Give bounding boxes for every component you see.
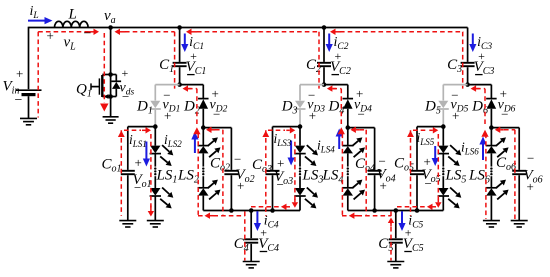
wire D6 lower <box>490 109 492 128</box>
node LS1 top dot <box>153 124 158 129</box>
label VC2 <box>330 59 351 77</box>
label VC1 plus <box>190 49 197 63</box>
wire bottom rail 2 <box>348 210 444 212</box>
ground Co6 <box>511 221 528 227</box>
red arrow after C1 <box>186 29 197 35</box>
wire D1 upper gray <box>154 85 156 101</box>
wire D5 upper gray <box>442 85 444 101</box>
label vD3 plus <box>309 108 316 123</box>
red path D2 vertical <box>196 89 198 125</box>
wire node to D1 gray <box>155 84 179 86</box>
label VC1 <box>186 59 207 77</box>
label D5 <box>424 99 441 117</box>
svg-text:−: − <box>122 89 129 104</box>
wire Q1 to ground <box>110 97 112 117</box>
label vD2 plus <box>212 86 219 101</box>
capacitor Co6 <box>512 171 526 174</box>
red arrow above rail1 <box>281 204 290 210</box>
current arrow iC4 blue <box>254 211 261 231</box>
red path C4 vertical <box>244 212 246 261</box>
current arrow iC1 blue <box>181 34 188 53</box>
red path node to D6 <box>476 88 485 90</box>
label Vo2 bottom sign <box>237 178 244 193</box>
LED string LS6 <box>486 128 509 221</box>
capacitor Co1 <box>121 171 135 174</box>
svg-text:D3: D3 <box>281 99 298 117</box>
red path out3 top <box>268 129 285 131</box>
node va dot <box>108 25 113 30</box>
label vD6 plus <box>500 86 507 101</box>
node C1 bottom dot <box>177 82 182 87</box>
label iC2 <box>334 35 349 52</box>
label Co1 <box>102 157 122 175</box>
wire va to Q1 drain <box>110 28 112 75</box>
label vD2 minus <box>213 107 220 122</box>
red arrow Co3 up <box>262 131 269 138</box>
svg-text:Co4: Co4 <box>355 156 375 174</box>
svg-text:LS2: LS2 <box>177 168 199 186</box>
wire node to D5 gray <box>443 84 467 86</box>
label VC4 minus <box>260 251 268 253</box>
current arrow iLS3 blue <box>288 141 295 166</box>
diode D1 <box>150 101 161 109</box>
red path above rail2 right <box>397 206 433 208</box>
label D1 <box>136 99 153 117</box>
node LS5 top dot <box>441 124 446 129</box>
wire node to D3 gray <box>300 84 324 86</box>
svg-text:+: + <box>237 178 244 193</box>
red path below rail1 left <box>198 215 245 217</box>
wire Co4 upper <box>374 128 376 170</box>
wire LS5 top to Co5 <box>417 126 443 128</box>
svg-text:iLS6: iLS6 <box>461 140 479 157</box>
label VC4 plus <box>260 226 267 240</box>
node rail1 Co2 dot <box>229 208 234 213</box>
svg-text:iLS2: iLS2 <box>164 132 182 149</box>
label LS3 <box>302 168 324 186</box>
wire Co1 lower <box>127 175 129 220</box>
label iC3 <box>477 35 492 52</box>
diode D6 <box>486 99 497 109</box>
red arrow C5 up <box>388 218 394 227</box>
wire Co6 lower <box>518 175 520 220</box>
red arrow above rail2 <box>427 204 436 210</box>
red arrow out2 left <box>206 127 215 133</box>
wire top bus <box>29 27 468 29</box>
svg-text:LS5: LS5 <box>445 168 467 186</box>
svg-text:iLS3: iLS3 <box>274 131 292 148</box>
label vds <box>120 81 135 98</box>
wire Co5 upper <box>416 127 418 170</box>
inductor L <box>55 21 89 27</box>
wire LS4 top to Co4 <box>348 127 375 129</box>
wire bottom rail 1 <box>203 210 300 212</box>
wire Co1 upper <box>127 127 129 170</box>
svg-text:+: + <box>452 108 459 123</box>
red path LS6 left vertical <box>485 134 487 220</box>
label iLS5 <box>417 130 435 147</box>
svg-text:+: + <box>47 28 54 43</box>
svg-text:C3: C3 <box>447 57 462 75</box>
wire LS3 top to Co3 <box>273 126 301 128</box>
red path LS5 left vertical <box>437 134 439 200</box>
svg-text:−: − <box>234 152 241 167</box>
red arrow out5 right <box>429 127 438 133</box>
wire Co4 lower <box>374 175 376 210</box>
capacitor C2 <box>317 63 331 66</box>
wire LS6 top to Co6 <box>491 127 519 129</box>
current arrow iL blue <box>28 17 53 24</box>
label Vo5 bottom sign <box>425 176 432 191</box>
red path out1 top <box>124 129 141 131</box>
red path Q1 vertical <box>103 33 105 103</box>
label vD5 minus <box>451 88 458 103</box>
LED string LS1 <box>150 127 174 221</box>
wire LS1 top to Co1 <box>128 126 156 128</box>
red arrow D4 up <box>338 127 345 134</box>
label Vo2 top sign <box>234 152 241 167</box>
current arrow iLS1 blue <box>143 142 150 167</box>
voltage source Vin battery <box>16 90 42 94</box>
label C3 <box>447 57 462 75</box>
wire C2 column upper <box>323 28 325 62</box>
wire C3 column lower <box>467 67 469 84</box>
wire D4 lower <box>347 109 349 128</box>
current arrow iC2 blue <box>326 34 333 53</box>
label vD5 plus <box>452 108 459 123</box>
node C2 bottom dot <box>322 82 327 87</box>
label Vin minus <box>15 93 23 108</box>
wire Co3 lower <box>272 175 274 210</box>
svg-text:−: − <box>358 107 365 122</box>
label vD6 <box>498 98 516 115</box>
label vD3 minus <box>308 88 315 103</box>
node rail2 C5 dot <box>394 208 399 213</box>
red path Co1 left vertical <box>120 130 122 215</box>
red arrow below rail2 <box>349 213 358 219</box>
red arrow LS3 down <box>292 199 298 208</box>
label iC4 <box>264 214 279 231</box>
wire C2 column lower <box>323 67 325 84</box>
current arrow iLS6 blue <box>479 137 486 161</box>
red path above rail1 right <box>251 206 287 208</box>
red path Co4 left vertical <box>365 130 367 215</box>
transistor Q1 <box>91 72 113 99</box>
label Vo6 top sign <box>527 151 534 166</box>
node LS6 top dot <box>489 125 494 130</box>
wire C4 upper <box>250 211 252 239</box>
node top bus C2 dot <box>322 25 327 30</box>
label D4 <box>328 99 345 117</box>
red path LS4 left vertical <box>341 134 343 215</box>
label Vo4 top sign <box>379 154 386 169</box>
red arrow node row module 2 <box>327 85 336 91</box>
red path top bus dashed <box>125 31 463 33</box>
red arrow below rail1 <box>205 213 214 219</box>
label Vo3 top sign <box>277 156 284 171</box>
wire C3 column upper <box>467 28 469 62</box>
svg-text:iLS1: iLS1 <box>129 132 147 149</box>
ground Q1 <box>103 117 119 123</box>
current arrow iLS5 blue <box>432 146 439 166</box>
diode D5 <box>438 101 449 109</box>
label Vo1 bottom sign <box>134 180 141 195</box>
label iLS6 <box>461 140 479 157</box>
red arrow Co1 up <box>118 131 125 138</box>
label Vo5 top sign <box>424 154 431 169</box>
label LS5 <box>445 168 467 186</box>
red path C5 vertical <box>390 212 392 261</box>
svg-text:+: + <box>527 179 534 194</box>
label va <box>104 8 116 26</box>
label VC2 plus <box>335 49 342 63</box>
capacitor C5 <box>389 239 403 242</box>
label Vin plus <box>16 66 23 81</box>
red arrow after C2 <box>330 29 341 35</box>
label vD6 minus <box>501 107 508 122</box>
svg-text:−: − <box>277 177 284 192</box>
red path out6 top <box>504 129 515 131</box>
label vD1 plus <box>164 108 171 123</box>
label LS2 <box>177 168 199 186</box>
label vD5 <box>451 98 469 115</box>
label Co6 <box>496 155 516 173</box>
wire C1 column upper <box>179 28 181 62</box>
wire Co3 upper <box>272 127 274 170</box>
wire node to D4 <box>324 84 348 86</box>
svg-text:D5: D5 <box>424 99 441 117</box>
node rail2 Co5 dot <box>415 208 420 213</box>
diode D2 <box>198 99 209 109</box>
svg-text:Co1: Co1 <box>102 157 122 175</box>
current arrow iLS2 blue <box>191 132 198 154</box>
capacitor Co5 <box>410 171 424 174</box>
label vds plus <box>122 66 129 80</box>
red path C2 vertical <box>318 32 320 89</box>
wire C4 lower <box>250 244 252 262</box>
label VC5 <box>403 236 424 254</box>
red arrow out3 right <box>286 127 295 133</box>
label iLS1 <box>129 132 147 149</box>
wire D2 lower <box>202 109 204 128</box>
node LS4 top dot <box>346 125 351 130</box>
capacitor Co2 <box>224 171 238 174</box>
label Vo3 <box>274 169 293 187</box>
red path C3 vertical <box>462 32 464 89</box>
wire C1 column lower <box>179 67 181 84</box>
wire Co2 lower <box>230 175 232 210</box>
label VC3 plus <box>478 49 485 63</box>
red path Co5 left vertical <box>410 130 412 215</box>
ground C5 <box>387 262 404 268</box>
red arrow LS5 down <box>435 199 441 208</box>
label iL <box>30 4 39 21</box>
label Co3 <box>252 157 272 175</box>
label vD3 <box>307 98 325 115</box>
label LS1 <box>156 168 178 186</box>
svg-text:Q1: Q1 <box>76 82 92 100</box>
label LS6 <box>468 168 490 186</box>
wire C5 lower <box>395 244 397 262</box>
red arrow into va <box>115 29 126 35</box>
label C1 <box>159 57 174 75</box>
wire D5 lower gray <box>442 110 444 127</box>
label vD1 minus <box>163 88 170 103</box>
red path D4 vertical <box>340 89 342 125</box>
red path input loop left vertical <box>37 32 39 118</box>
red arrow Q1 down <box>100 104 108 112</box>
svg-text:LS1: LS1 <box>156 168 178 186</box>
label D3 <box>281 99 298 117</box>
svg-text:vL: vL <box>64 35 77 53</box>
svg-text:Co3: Co3 <box>252 157 272 175</box>
diode D3 <box>295 101 306 109</box>
svg-text:−: − <box>501 107 508 122</box>
label iLS3 <box>274 131 292 148</box>
red path Co3 left vertical <box>265 130 267 215</box>
label VC2 minus <box>332 74 340 76</box>
red path LS1 left vertical <box>150 134 152 208</box>
red path Co6 left vertical <box>514 130 516 219</box>
label Q1 <box>76 82 92 100</box>
current arrow iC3 blue <box>469 34 476 53</box>
red path Co2 left vertical <box>222 130 224 215</box>
ground C4 <box>243 262 260 268</box>
red path node to D2 <box>188 88 197 90</box>
wire D3 lower gray <box>299 110 301 127</box>
red path input loop top <box>38 31 88 33</box>
svg-text:+: + <box>122 66 129 80</box>
label D6 <box>471 99 488 117</box>
svg-text:C1: C1 <box>159 57 174 75</box>
label Vo4 bottom sign <box>380 178 387 193</box>
label VC1 minus <box>187 74 195 76</box>
label VC3 <box>474 59 495 77</box>
red arrow node row module 1 <box>183 85 192 91</box>
svg-text:−: − <box>15 93 23 108</box>
label VC5 minus <box>404 251 412 253</box>
svg-text:−: − <box>134 180 141 195</box>
capacitor C4 <box>244 239 258 242</box>
red path D6 vertical <box>484 89 486 127</box>
svg-text:LS3: LS3 <box>302 168 324 186</box>
svg-text:L: L <box>68 7 77 23</box>
label Vo1 top sign <box>135 155 142 170</box>
label D2 <box>183 99 200 117</box>
ground LS6 <box>483 221 500 227</box>
label vD4 <box>354 98 372 115</box>
svg-text:−: − <box>425 176 432 191</box>
wire Vin branch <box>28 27 30 89</box>
red arrow out1 right <box>142 127 151 133</box>
capacitor C3 <box>461 63 475 66</box>
label Vo3 bottom sign <box>277 177 284 192</box>
svg-text:−: − <box>213 107 220 122</box>
label vL <box>64 35 77 53</box>
label iC1 <box>189 35 204 52</box>
wire D1 lower gray <box>154 110 156 127</box>
LED string LS3 <box>294 127 318 211</box>
red arrow LS1 down <box>148 206 154 217</box>
wire D6 upper <box>490 85 492 99</box>
label vD4 plus <box>356 86 363 101</box>
svg-text:iL: iL <box>30 4 39 21</box>
node rail1 C4 dot <box>249 208 254 213</box>
label Vo6 <box>524 168 543 186</box>
wire Co5 lower <box>416 175 418 210</box>
LED string LS4 <box>342 128 365 211</box>
red path out2 top <box>215 129 223 131</box>
label iLS2 <box>164 132 182 149</box>
label VC4 <box>258 236 279 254</box>
label iC5 <box>408 214 423 231</box>
node LS2 top dot <box>201 125 206 130</box>
wire LS2 top to Co2 <box>203 127 231 129</box>
red arrow out6 left <box>495 127 504 133</box>
wire Vin to ground <box>28 96 30 118</box>
label Co4 <box>355 156 375 174</box>
red path C1 vertical <box>174 32 176 89</box>
red arrow D2 up <box>193 127 200 134</box>
svg-text:LS4: LS4 <box>322 168 344 186</box>
svg-text:+: + <box>164 108 171 123</box>
label VC3 minus <box>475 74 483 76</box>
red path out5 top <box>413 129 428 131</box>
label VC5 plus <box>405 226 412 240</box>
current arrow iC5 blue <box>398 211 405 231</box>
node rail2 Co4 dot <box>372 208 377 213</box>
red path out4 top <box>360 129 367 131</box>
red arrow D6 up <box>481 130 488 137</box>
label C2 <box>306 57 321 75</box>
wire D4 upper <box>347 85 349 99</box>
red path below rail2 left <box>342 215 391 217</box>
capacitor C1 <box>173 63 187 66</box>
label Vin <box>3 79 20 97</box>
capacitor Co3 <box>266 171 280 174</box>
capacitor Co4 <box>368 171 382 174</box>
label Co5 <box>394 156 414 174</box>
label Vo4 <box>377 167 396 185</box>
ground LS1 <box>147 221 164 227</box>
svg-text:−: − <box>84 27 92 42</box>
diode D4 <box>343 99 354 109</box>
red arrow input loop right <box>88 29 99 35</box>
wire D3 upper gray <box>299 85 301 101</box>
body diode Q1 <box>111 75 122 97</box>
label Vo6 bottom sign <box>527 179 534 194</box>
svg-text:Co6: Co6 <box>496 155 516 173</box>
red arrow Co5 up <box>407 131 414 138</box>
node top bus C1 dot <box>177 25 182 30</box>
svg-text:Co2: Co2 <box>210 156 230 174</box>
label Vo5 <box>422 167 441 185</box>
ground Vin <box>20 118 37 124</box>
svg-text:+: + <box>16 66 23 81</box>
red path LS3 left vertical <box>294 134 296 200</box>
label vD4 minus <box>358 107 365 122</box>
wire node to D2 <box>180 84 204 86</box>
svg-text:D1: D1 <box>136 99 153 117</box>
node rail1 Co3 dot <box>270 208 275 213</box>
red path node to D4 <box>332 88 341 90</box>
svg-text:+: + <box>380 178 387 193</box>
label iLS4 <box>317 138 335 155</box>
red path LS2 left vertical <box>197 134 199 215</box>
ground Co1 <box>119 221 136 227</box>
label LS4 <box>322 168 344 186</box>
label C4 <box>234 236 249 254</box>
